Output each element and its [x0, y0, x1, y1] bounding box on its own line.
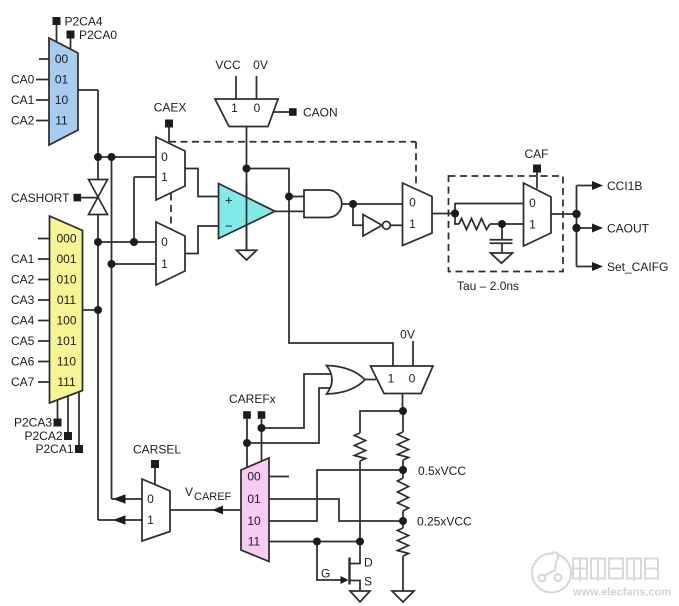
svg-text:CARSEL: CARSEL — [133, 443, 181, 457]
svg-text:110: 110 — [57, 355, 76, 369]
svg-text:010: 010 — [56, 273, 76, 287]
svg-text:0.25xVCC: 0.25xVCC — [417, 515, 472, 529]
svg-text:CAF: CAF — [525, 147, 549, 161]
svg-text:P2CA0: P2CA0 — [79, 28, 117, 42]
svg-text:www.elecfans.com: www.elecfans.com — [572, 587, 671, 599]
svg-text:P2CA1: P2CA1 — [35, 442, 73, 456]
svg-text:P2CA3: P2CA3 — [14, 416, 52, 430]
svg-text:CA1: CA1 — [11, 93, 35, 107]
svg-text:CA2: CA2 — [11, 273, 35, 287]
svg-text:CA1: CA1 — [11, 252, 35, 266]
svg-text:CA2: CA2 — [11, 114, 35, 128]
svg-text:0V: 0V — [400, 328, 415, 342]
svg-text:100: 100 — [56, 314, 76, 328]
svg-text:P2CA4: P2CA4 — [65, 15, 103, 29]
svg-text:1: 1 — [161, 170, 168, 184]
svg-text:1: 1 — [409, 217, 416, 231]
svg-text:11: 11 — [55, 114, 68, 128]
svg-text:CAREF: CAREF — [194, 491, 232, 503]
svg-text:D: D — [364, 556, 373, 570]
svg-text:0V: 0V — [253, 58, 268, 72]
svg-text:+: + — [225, 193, 233, 208]
svg-text:01: 01 — [55, 73, 69, 87]
svg-text:CAOUT: CAOUT — [607, 222, 650, 236]
svg-text:CAREFx: CAREFx — [229, 392, 276, 406]
svg-text:VCC: VCC — [215, 58, 241, 72]
svg-text:Tau – 2.0ns: Tau – 2.0ns — [457, 279, 519, 293]
svg-text:001: 001 — [56, 252, 76, 266]
svg-text:01: 01 — [247, 492, 261, 506]
svg-text:011: 011 — [57, 293, 76, 307]
svg-text:CA7: CA7 — [11, 375, 35, 389]
svg-text:00: 00 — [247, 470, 261, 484]
svg-text:1: 1 — [147, 513, 154, 527]
svg-text:CA3: CA3 — [11, 293, 35, 307]
svg-text:11: 11 — [248, 535, 261, 549]
svg-text:1: 1 — [529, 218, 536, 232]
svg-text:1: 1 — [161, 257, 168, 271]
svg-text:CA0: CA0 — [11, 73, 35, 87]
svg-text:G: G — [321, 567, 330, 581]
svg-text:−: − — [225, 219, 233, 234]
svg-text:111: 111 — [57, 375, 76, 389]
svg-text:0: 0 — [409, 196, 416, 210]
svg-text:CAON: CAON — [303, 106, 338, 120]
svg-text:P2CA2: P2CA2 — [24, 429, 62, 443]
svg-text:0: 0 — [161, 150, 168, 164]
svg-text:CCI1B: CCI1B — [607, 179, 642, 193]
svg-text:0: 0 — [147, 492, 154, 506]
svg-text:0: 0 — [161, 235, 168, 249]
svg-text:V: V — [185, 485, 193, 499]
svg-text:0: 0 — [254, 101, 261, 115]
svg-text:101: 101 — [56, 334, 76, 348]
svg-text:00: 00 — [55, 52, 69, 66]
svg-text:1: 1 — [388, 372, 395, 386]
svg-text:0.5xVCC: 0.5xVCC — [418, 464, 466, 478]
svg-text:10: 10 — [55, 93, 69, 107]
svg-text:000: 000 — [56, 232, 76, 246]
svg-text:Set_CAIFG: Set_CAIFG — [607, 260, 668, 274]
svg-text:0: 0 — [529, 196, 536, 210]
svg-text:0: 0 — [409, 372, 416, 386]
svg-text:CA4: CA4 — [11, 314, 35, 328]
svg-text:CA6: CA6 — [11, 355, 35, 369]
svg-text:CAEX: CAEX — [154, 101, 187, 115]
svg-text:S: S — [364, 575, 372, 589]
svg-text:10: 10 — [247, 514, 261, 528]
svg-text:CA5: CA5 — [11, 334, 35, 348]
svg-text:CASHORT: CASHORT — [11, 191, 70, 205]
svg-text:1: 1 — [231, 101, 238, 115]
